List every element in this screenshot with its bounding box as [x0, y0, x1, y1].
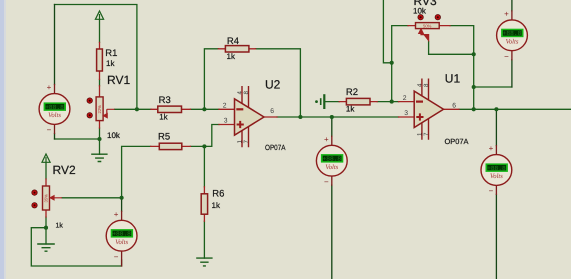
svg-text:+88.8: +88.8: [487, 165, 506, 172]
svg-text:−: −: [504, 52, 509, 61]
svg-text:10k: 10k: [107, 131, 121, 140]
svg-text:+88.8: +88.8: [45, 104, 64, 111]
svg-text:10k: 10k: [413, 7, 427, 16]
svg-text:3: 3: [404, 110, 408, 117]
svg-text:+88.8: +88.8: [503, 30, 522, 37]
svg-text:+: +: [489, 144, 494, 153]
svg-text:−: −: [47, 126, 52, 135]
svg-text:50%: 50%: [423, 24, 432, 29]
svg-text:+: +: [504, 10, 509, 19]
svg-text:−: −: [489, 187, 494, 196]
svg-text:U1: U1: [445, 72, 461, 86]
svg-text:−: −: [114, 252, 119, 261]
svg-text:6: 6: [452, 102, 456, 109]
svg-text:Volts: Volts: [48, 112, 61, 119]
svg-text:1k: 1k: [159, 113, 168, 122]
svg-text:+: +: [47, 83, 52, 92]
svg-text:35%: 35%: [44, 194, 49, 203]
svg-text:R5: R5: [158, 131, 170, 142]
svg-text:Volts: Volts: [490, 173, 503, 180]
svg-text:+88.8: +88.8: [112, 231, 131, 238]
svg-text:7: 7: [423, 132, 430, 136]
svg-text:−: −: [324, 177, 329, 186]
svg-text:3: 3: [224, 118, 228, 125]
svg-text:R3: R3: [159, 95, 171, 106]
svg-text:RV2: RV2: [53, 163, 76, 177]
svg-text:2: 2: [223, 102, 227, 109]
svg-text:7: 7: [243, 140, 250, 144]
svg-text:8: 8: [423, 83, 430, 87]
svg-text:1k: 1k: [227, 52, 236, 61]
svg-text:22%: 22%: [97, 105, 102, 114]
svg-text:R4: R4: [227, 36, 239, 47]
svg-text:RV1: RV1: [107, 73, 130, 87]
svg-text:1k: 1k: [212, 201, 221, 210]
svg-text:1k: 1k: [346, 105, 355, 114]
svg-text:1k: 1k: [56, 221, 64, 229]
svg-text:OP07A: OP07A: [445, 137, 469, 146]
svg-text:+: +: [114, 210, 119, 219]
svg-text:U2: U2: [265, 77, 281, 91]
svg-text:R1: R1: [105, 48, 117, 59]
svg-text:R2: R2: [346, 87, 358, 98]
svg-text:+: +: [324, 135, 329, 144]
svg-text:R6: R6: [212, 189, 224, 200]
svg-text:8: 8: [243, 91, 250, 95]
svg-text:OP07A: OP07A: [265, 143, 286, 152]
svg-text:1k: 1k: [106, 59, 115, 68]
svg-text:2: 2: [403, 95, 407, 102]
svg-text:Volts: Volts: [325, 164, 338, 171]
svg-text:Volts: Volts: [115, 239, 128, 246]
svg-text:6: 6: [270, 108, 274, 115]
svg-text:Volts: Volts: [506, 39, 519, 46]
svg-text:+88.8: +88.8: [323, 156, 342, 163]
